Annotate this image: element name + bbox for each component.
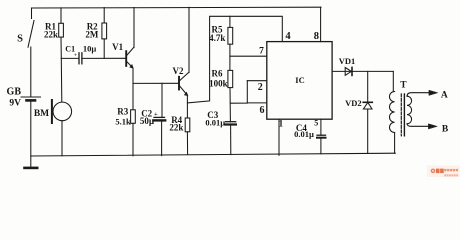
svg-text:R6: R6 — [212, 69, 223, 79]
svg-text:100k: 100k — [209, 78, 228, 88]
wire pin 8 — [320, 7, 322, 41]
switch S — [17, 8, 34, 97]
svg-text:22k: 22k — [169, 123, 183, 133]
resistor R6 — [209, 69, 233, 122]
resistor R5 — [209, 16, 233, 70]
wire pin 3 output — [332, 70, 393, 72]
transistor V1 — [112, 8, 134, 84]
microphone BM — [34, 58, 72, 155]
svg-text:S: S — [17, 34, 23, 45]
wire pin 7 — [230, 55, 267, 57]
output A arrow — [429, 90, 438, 95]
capacitor C3 — [205, 110, 235, 155]
svg-text:2M: 2M — [85, 29, 99, 39]
resistor R1 — [44, 8, 63, 59]
svg-text:10µ: 10µ — [83, 44, 97, 54]
svg-text:+: + — [154, 111, 158, 118]
svg-text:4.7k: 4.7k — [209, 33, 225, 43]
svg-text:5: 5 — [314, 119, 318, 128]
transformer T — [389, 71, 429, 153]
svg-text:BM: BM — [34, 109, 49, 119]
svg-text:9V: 9V — [9, 99, 21, 109]
wire bottom rail — [31, 153, 395, 156]
svg-text:8: 8 — [314, 31, 319, 42]
svg-text:B: B — [442, 124, 449, 134]
svg-text:VD1: VD1 — [339, 56, 356, 66]
diode VD1 — [339, 56, 356, 75]
svg-text:V1: V1 — [112, 42, 123, 52]
svg-text:2: 2 — [258, 82, 263, 93]
resistor R3 — [115, 83, 135, 155]
watermark logo — [427, 166, 460, 178]
wire V2 emitter to pin 4 (reset) — [187, 16, 282, 103]
svg-text:5.1k: 5.1k — [115, 117, 131, 127]
wire top rail — [32, 6, 322, 9]
capacitor C2 — [140, 83, 165, 155]
svg-text:4: 4 — [285, 31, 291, 42]
svg-text:22k: 22k — [44, 30, 58, 40]
capacitor C4 — [294, 119, 325, 154]
svg-text:6: 6 — [260, 105, 265, 116]
svg-text:A: A — [441, 90, 448, 100]
wire pin 1 — [278, 119, 280, 155]
svg-text:0.01µ: 0.01µ — [294, 129, 314, 139]
resistor R2 — [85, 8, 106, 59]
svg-text:R3: R3 — [117, 107, 128, 117]
svg-text:IC: IC — [295, 75, 304, 85]
resistor R4 — [169, 115, 189, 154]
wire pins 2 and 6 — [230, 81, 266, 116]
svg-text:+: + — [74, 52, 77, 58]
battery GB — [7, 87, 41, 156]
diode VD2 — [345, 71, 372, 153]
timer IC — [267, 42, 332, 120]
wire V1 emitter to V2 base — [133, 82, 179, 84]
svg-text:GB: GB — [7, 87, 22, 98]
output B arrow — [428, 124, 437, 129]
ground — [25, 156, 38, 168]
svg-text:V2: V2 — [173, 66, 184, 76]
svg-text:50µ: 50µ — [140, 116, 155, 126]
svg-text:0.01µ: 0.01µ — [205, 117, 225, 127]
svg-text:T: T — [400, 81, 407, 91]
svg-text:1: 1 — [279, 118, 284, 128]
transistor V2 — [173, 7, 190, 118]
svg-text:VD2: VD2 — [345, 98, 362, 108]
capacitor C1 — [61, 44, 126, 64]
svg-text:7: 7 — [259, 47, 264, 57]
